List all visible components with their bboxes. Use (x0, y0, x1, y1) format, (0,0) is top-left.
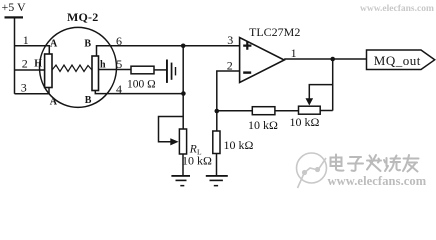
wire 100ohm to ground (154, 69, 166, 71)
glyph fa (367, 155, 381, 171)
ground under 10k (206, 175, 228, 186)
wire 10k vertical to ground (216, 154, 218, 176)
resistor 100 ohm box (131, 66, 154, 74)
svg-text:1: 1 (291, 46, 297, 60)
svg-text:3: 3 (21, 80, 27, 94)
resistor 10k vertical box (213, 131, 220, 154)
output flag MQ_out (367, 50, 435, 70)
wire feedback chain horizontal (217, 110, 333, 112)
svg-text:10 kΩ: 10 kΩ (182, 154, 212, 168)
sensor MQ-2 circle (40, 27, 117, 107)
wire RL wiper branch (159, 117, 184, 142)
wire pin6 to opamp (97, 46, 240, 56)
watermark logo circle (297, 153, 327, 188)
svg-text:www.elecfans.com: www.elecfans.com (360, 4, 434, 14)
wire pin2 (15, 69, 45, 71)
svg-text:10 kΩ: 10 kΩ (224, 138, 254, 152)
wire output junction down (332, 59, 334, 111)
wire +5V vertical (14, 19, 16, 94)
op-amp U1 triangle (240, 38, 285, 83)
svg-text:5: 5 (116, 57, 122, 71)
svg-text:6: 6 (116, 34, 122, 48)
node junction pin6/pin3 (181, 44, 186, 49)
glyph zi (348, 157, 363, 171)
svg-text:2: 2 (22, 56, 28, 70)
svg-text:TLC27M2: TLC27M2 (249, 25, 300, 39)
svg-text:100 Ω: 100 Ω (127, 78, 156, 90)
svg-text:4: 4 (116, 82, 122, 96)
svg-text:A: A (50, 97, 58, 108)
ground (rotated) bar2 (171, 63, 173, 80)
svg-text:B: B (84, 38, 91, 49)
RL wiper arrowhead (170, 138, 178, 145)
svg-text:www.elecfans.com: www.elecfans.com (328, 174, 427, 188)
svg-text:B: B (85, 95, 92, 106)
wire pin1 (15, 46, 50, 54)
wire opamp minus feedback vertical (217, 71, 240, 131)
heater zigzag (52, 65, 92, 72)
op-amp plus sign (243, 42, 251, 50)
svg-text:H: H (34, 59, 42, 70)
node junction pin4 (181, 91, 186, 96)
svg-text:A: A (50, 38, 58, 49)
svg-text:1: 1 (23, 33, 29, 47)
ground (rotated) bar1 (166, 60, 168, 83)
watermark logo dots (302, 167, 320, 175)
power rail +5V bar (5, 16, 24, 18)
wire pot wiper branch (309, 85, 332, 99)
sensor right electrode (92, 56, 99, 91)
wire pin4 (95, 91, 183, 94)
node junction feedback (215, 109, 220, 114)
potentiometer 10k box2 (299, 106, 321, 114)
svg-text:10 kΩ: 10 kΩ (248, 118, 278, 132)
glyph shao (384, 156, 400, 172)
wire RL to ground (182, 154, 184, 175)
resistor RL box (179, 129, 186, 154)
node output junction (330, 57, 335, 62)
svg-text:10 kΩ: 10 kΩ (290, 115, 320, 129)
wire pin3 (15, 88, 50, 94)
wire sensor output bus vertical (182, 46, 184, 129)
svg-text:2: 2 (227, 59, 233, 73)
ground under RL (171, 175, 190, 186)
sensor left electrode (45, 54, 52, 88)
ground (rotated) bar3 (175, 67, 176, 75)
watermark chinese glyphs (hand drawn) (331, 155, 419, 172)
pot wiper arrowhead (306, 98, 314, 105)
svg-text:MQ_out: MQ_out (374, 53, 421, 68)
svg-text:MQ-2: MQ-2 (67, 10, 98, 24)
resistor 10k feedback box1 (252, 107, 275, 115)
wire output (284, 58, 366, 60)
op-amp minus sign (243, 71, 251, 73)
glyph you (403, 155, 419, 172)
wire pin5 (99, 69, 132, 71)
svg-text:+5 V: +5 V (2, 0, 27, 14)
svg-text:3: 3 (227, 33, 233, 47)
glyph dian (331, 155, 344, 171)
